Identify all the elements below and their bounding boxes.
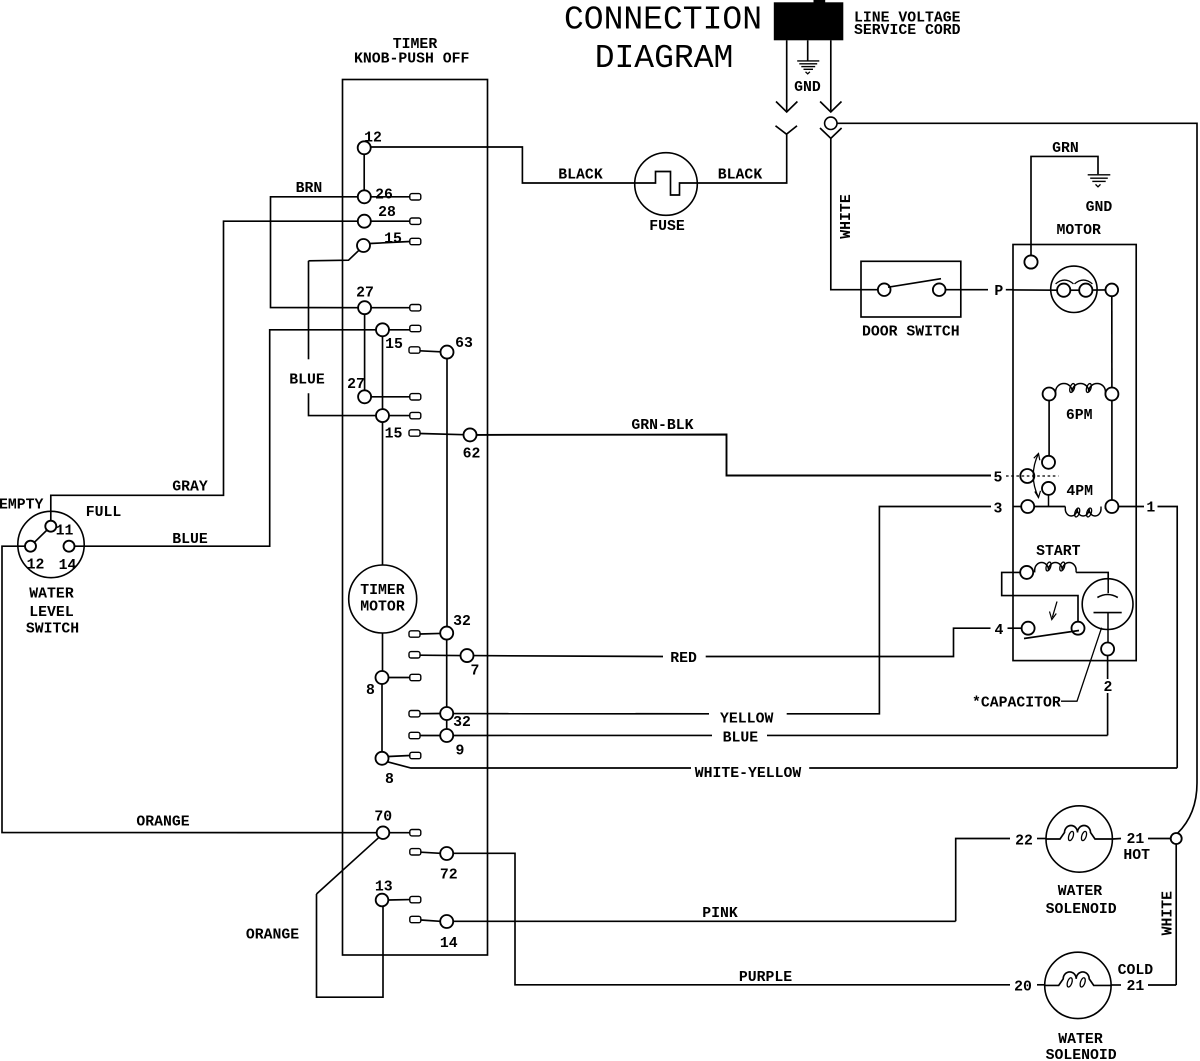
hot water solenoid [1046,806,1112,872]
wire: P to motor box [1006,289,1013,291]
svg-text:YELLOW: YELLOW [720,711,773,727]
contact 7 row [409,652,420,658]
link 32a-32b [446,640,448,707]
6PM winding coil [1056,383,1106,391]
switch arm 15a [309,250,359,260]
timer terminal 13 [376,894,389,907]
speed selector lower contact [1042,482,1055,495]
receptacle connector left [776,126,798,134]
svg-text:BLUE: BLUE [723,731,759,747]
contact 62 row [409,430,420,436]
wire: start winding to capacitor top [1076,572,1108,580]
wire: 3 row to coil [1034,506,1065,508]
wire: capacitor terminal down (node 2) [1107,656,1109,680]
cold water solenoid [1045,952,1111,1018]
wire 15a arm down (BLUE) upper part [308,261,310,360]
selector wiper travel arc with arrows [1033,454,1038,498]
wire: P into main winding [1013,289,1057,291]
motor box [1013,245,1136,661]
svg-text:BLACK: BLACK [718,168,763,184]
svg-text:EMPTY: EMPTY [0,497,44,513]
wire+contact 15c [389,415,410,417]
svg-text:70: 70 [374,809,392,825]
wire: terminal 4 lead [1008,627,1022,629]
svg-text:21: 21 [1127,832,1145,848]
link 15b-15c [382,336,384,409]
fuse F1 [635,153,698,216]
wire+contact 8b [389,756,410,757]
svg-text:SOLENOID: SOLENOID [1046,1048,1117,1061]
svg-text:FUSE: FUSE [649,219,685,235]
wire BLUE: water level 14 to 15b [75,330,377,546]
svg-text:26: 26 [375,187,393,203]
svg-text:WATER: WATER [29,586,74,602]
svg-text:KNOB-PUSH OFF: KNOB-PUSH OFF [354,52,469,68]
timer terminal 63 [441,346,454,359]
svg-text:TIMER: TIMER [393,37,438,53]
svg-text:8: 8 [366,683,375,699]
timer terminal 27a [358,301,371,314]
svg-text:SERVICE CORD: SERVICE CORD [854,23,961,39]
timer terminal 32a [440,627,453,640]
wire: plug tap to right edge [837,123,1197,783]
link 15c to timer motor [382,422,384,565]
timer terminal 28 [358,215,371,228]
svg-text:COLD: COLD [1118,963,1154,979]
wire 21 hot with junction [1112,838,1121,841]
motor ground terminal circle [1024,255,1037,268]
svg-text:GND: GND [794,80,821,96]
svg-text:PINK: PINK [702,906,738,922]
timer terminal 72 [440,847,453,860]
svg-text:P: P [994,284,1003,300]
wire: 70 arm loop to 13 [317,894,384,997]
svg-text:32: 32 [453,614,471,630]
capacitor C1 [1082,579,1133,630]
wire BLUE: 9 to capacitor 2 [453,734,712,736]
ground symbol (motor) [1088,174,1111,176]
water level terminal 14 [64,541,75,552]
svg-text:62: 62 [463,447,481,463]
link 27a-27b [364,314,366,390]
svg-text:22: 22 [1015,834,1033,850]
svg-text:BLUE: BLUE [172,532,208,548]
contact 63 row [409,347,420,353]
svg-text:MOTOR: MOTOR [1056,223,1101,239]
wire: plug right prong down to door switch (WHITE) [831,138,861,289]
svg-text:GND: GND [1086,200,1113,216]
wire 15a arm down lower part to 15c [309,393,377,415]
svg-text:15: 15 [384,231,402,247]
wire: 6PM right down to 4PM right [1111,401,1113,501]
centrifugal switch blade [1024,631,1079,639]
svg-text:32: 32 [453,715,471,731]
svg-text:4: 4 [995,623,1004,639]
svg-text:RED: RED [670,651,697,667]
switch arm 70 diagonal [317,838,379,894]
door switch box [861,261,961,317]
wire: motor terminal to chassis ground (GRN) [1031,156,1098,255]
svg-text:GRN-BLK: GRN-BLK [631,418,693,434]
svg-text:BLACK: BLACK [558,167,603,183]
wire: 6PM left down to speed contact [1048,401,1050,456]
4PM right terminal [1105,500,1118,513]
svg-text:28: 28 [378,205,396,221]
motor main winding (run) symbol [1051,266,1097,312]
capacitor top lead [1107,581,1109,594]
svg-text:72: 72 [440,868,458,884]
svg-text:PURPLE: PURPLE [739,970,792,986]
water level terminal 11 [45,521,56,532]
terminal circle on 3 row [1021,500,1034,513]
svg-text:LEVEL: LEVEL [29,605,74,621]
svg-text:63: 63 [455,336,473,352]
svg-text:9: 9 [456,743,465,759]
wire BRN: 26 to 27a [271,197,359,308]
wire: right edge bend to HOT junction [1178,783,1198,833]
capacitor bottom lead [1107,613,1109,643]
svg-text:TIMER: TIMER [360,583,405,599]
svg-text:FULL: FULL [86,505,122,521]
svg-text:DOOR SWITCH: DOOR SWITCH [862,325,960,341]
contact 32b row [409,711,420,717]
svg-text:MOTOR: MOTOR [360,600,405,616]
wire+contact 15b [389,329,410,331]
wire: water level 12 to orange run [2,546,377,833]
centrifugal switch left contact (4) [1022,622,1035,635]
door switch blade [888,279,941,288]
plug ground lead [807,40,809,60]
link 8a-8b [381,684,383,752]
timer terminal 7 [461,649,474,662]
capacitor terminal circle (2) [1101,643,1114,656]
svg-text:WATER: WATER [1058,884,1103,900]
svg-text:WHITE: WHITE [1160,891,1176,936]
timer terminal 15c [376,409,389,422]
6PM winding terminals [1043,388,1056,401]
speed selector wiper terminal (5) [1020,469,1034,483]
timer terminal 32b [440,707,453,720]
svg-text:SOLENOID: SOLENOID [1046,902,1117,918]
wire GRAY: 28 to water level 11 [51,221,358,521]
svg-text:14: 14 [59,558,77,574]
start winding left terminal [1020,566,1033,579]
svg-text:WHITE: WHITE [839,194,855,239]
wire+contact 26 [371,196,410,198]
svg-text:15: 15 [385,337,403,353]
svg-text:15: 15 [385,426,403,442]
wire+contact 8a [389,677,410,679]
4PM winding coil [1065,509,1101,516]
contact 9 row [409,732,420,738]
wire: main winding internal link [1070,289,1079,291]
svg-text:6PM: 6PM [1066,408,1093,424]
svg-text:3: 3 [994,501,1003,517]
4PM row: wire into box (terminal 3 row) [1013,506,1021,508]
plug neutral prong (WHITE) [830,40,832,110]
link 12-26 [363,154,365,190]
link 63-32a [446,359,448,627]
svg-text:27: 27 [356,285,374,301]
line-voltage service cord plug [774,2,844,40]
timer terminal 8a [376,671,389,684]
motor tap terminal circle [1106,284,1119,297]
centrifugal switch actuator arrow [1052,602,1057,618]
wire: main winding to tap circle [1092,289,1105,291]
svg-text:14: 14 [440,936,458,952]
wire: 4PM right to node 1 [1118,506,1144,508]
svg-text:HOT: HOT [1123,848,1150,864]
svg-text:21: 21 [1127,979,1145,995]
timer terminal 9 [440,729,453,742]
start winding coil [1035,563,1076,571]
svg-text:BRN: BRN [296,181,323,197]
timer terminal 8b [376,752,389,765]
link timer motor to 8a [382,633,384,671]
svg-text:11: 11 [56,523,74,539]
water level switch arm [34,530,47,542]
svg-text:DIAGRAM: DIAGRAM [595,40,734,77]
wire: start winding left loop to centrifugal switch [1002,572,1078,621]
timer terminal 15b [376,323,389,336]
wire: door switch internal left [861,289,878,291]
svg-text:27: 27 [347,377,365,393]
wire: door switch to P [946,289,989,291]
door switch terminal right [933,283,946,296]
contact 15a [370,242,410,244]
svg-text:5: 5 [994,470,1003,486]
capacitor curved plate [1097,595,1117,598]
timer terminal 12 [358,141,371,154]
wire WHITE-YELLOW: 8b to motor 1 [388,762,692,768]
speed selector upper contact [1042,456,1055,469]
timer terminal 15a [357,239,370,252]
svg-text:GRAY: GRAY [172,479,208,495]
contact 72 row [410,849,421,855]
wire: node 1 to right vertical [1158,507,1178,768]
capacitor straight plate [1094,612,1122,614]
timer terminal 27b [358,390,371,403]
connector circle (white wire tap) [825,117,837,129]
link 32b-9 [446,720,448,729]
timer terminal 70 [377,826,390,839]
dashed linkage line at terminal 5 [1006,475,1058,477]
wire+contact 27a [371,307,410,309]
svg-text:GRN: GRN [1052,141,1079,157]
wire RED: 7 to motor 4 [474,655,664,658]
timer terminal 62 [464,428,477,441]
wire+contact 70 [390,832,410,834]
water level switch body [18,511,84,577]
wire PINK: 14 to hot solenoid 22 [453,920,956,922]
wire: timer 12 to fuse (BLACK) [371,147,636,183]
timer motor M [349,565,417,633]
wire+contact 13 [389,899,410,901]
svg-text:12: 12 [27,557,45,573]
timer terminal 14 [440,915,453,928]
contact 32a row [409,631,420,637]
svg-text:4PM: 4PM [1066,484,1093,500]
wire+contact 28 [371,220,410,222]
svg-text:1: 1 [1146,501,1155,517]
receptacle connector right [820,128,842,138]
svg-text:8: 8 [385,772,394,788]
plug left prong (BLACK) [786,40,788,110]
svg-text:12: 12 [364,130,382,146]
timer box [343,80,488,956]
svg-text:CONNECTION: CONNECTION [564,1,762,38]
wire PURPLE: 72 to cold solenoid 20 [453,853,1010,985]
svg-text:ORANGE: ORANGE [246,927,299,943]
contact 14 row [410,916,421,922]
svg-text:7: 7 [471,663,480,679]
svg-text:ORANGE: ORANGE [136,814,189,830]
wire YELLOW: 32b to motor 3 [453,713,709,715]
svg-text:13: 13 [375,879,393,895]
svg-text:WATER: WATER [1058,1032,1103,1048]
ground symbol (service cord) [797,60,819,62]
svg-text:20: 20 [1014,980,1032,996]
wire: tap down to 6PM winding [1111,296,1113,387]
wire: fuse to plug left prong (BLACK) [697,134,787,183]
wire 21 cold [1148,984,1176,986]
water level terminal 12 [25,541,36,552]
svg-text:WHITE-YELLOW: WHITE-YELLOW [695,766,802,782]
centrifugal switch right contact [1072,622,1085,635]
junction circle at HOT 21 [1171,833,1182,844]
wire: junction down to cold 21 (WHITE) [1175,844,1177,985]
svg-text:BLUE: BLUE [289,372,325,388]
svg-text:SWITCH: SWITCH [26,621,79,637]
svg-text:START: START [1036,544,1081,560]
timer terminal 26 [358,190,371,203]
wire+contact 27b [371,396,410,398]
svg-text:*CAPACITOR: *CAPACITOR [972,695,1061,711]
door switch terminal left [878,283,891,296]
